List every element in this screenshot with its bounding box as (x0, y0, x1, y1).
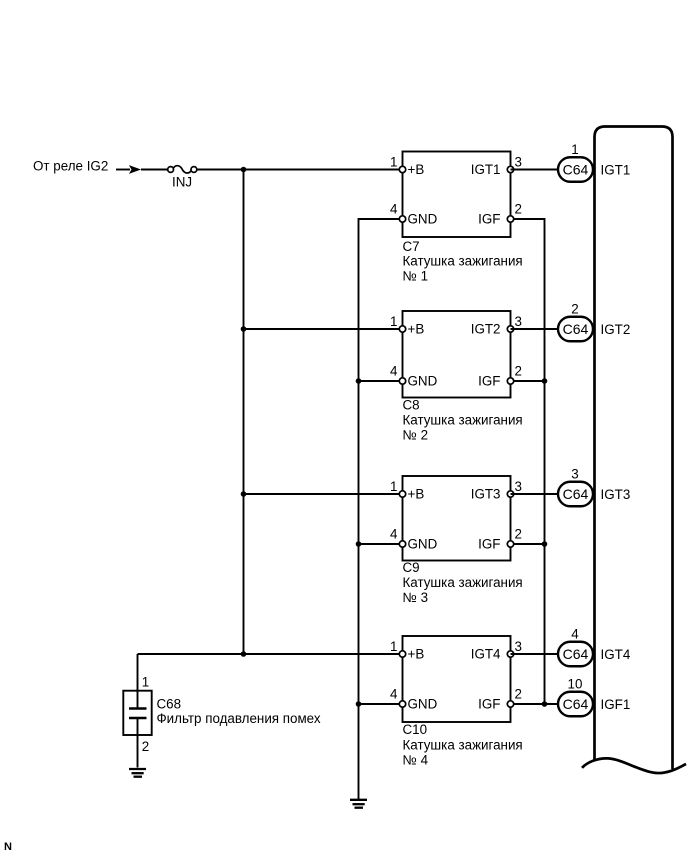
label C68 Фильтр подавления помех (157, 697, 321, 727)
svg-text:C9: C9 (403, 560, 420, 575)
junction +B bus row 2 (241, 326, 247, 332)
svg-text:2: 2 (515, 526, 522, 541)
wire arrow to fuse (141, 169, 168, 171)
svg-text:1: 1 (571, 142, 578, 157)
svg-text:4: 4 (390, 527, 398, 542)
junction IGF bus row 3 (542, 541, 548, 547)
wire C10 IGF to connector (511, 703, 559, 705)
svg-text:IGT1: IGT1 (601, 162, 631, 177)
ignition coil C10 (403, 636, 511, 722)
svg-text:+B: +B (408, 162, 425, 177)
wire +B bus vertical (243, 170, 245, 655)
label C8 Катушка зажигания № 2 (403, 397, 523, 442)
ignition coil C9 (403, 476, 511, 561)
svg-text:+B: +B (408, 321, 425, 336)
wire IGT4 to connector (511, 653, 559, 655)
svg-text:2: 2 (515, 363, 522, 378)
svg-text:2: 2 (515, 686, 522, 701)
pin 3 of C10 (507, 639, 522, 657)
wire IGF stub C8 (511, 380, 545, 382)
junction +B bus row 3 (241, 491, 247, 497)
pin 4 of C7 (390, 202, 406, 223)
wire fuse to coil C7 +B (197, 169, 403, 171)
ECM (engine control module) (582, 127, 686, 774)
svg-text:IGT3: IGT3 (601, 487, 631, 502)
svg-text:C64: C64 (563, 321, 589, 337)
junction +B bus bottom row (241, 651, 247, 657)
svg-text:C7: C7 (403, 239, 420, 254)
junction GND bus row 2 (356, 378, 362, 384)
wire IGF stub C9 (511, 543, 545, 545)
svg-text:GND: GND (408, 373, 438, 388)
svg-text:Катушка зажигания: Катушка зажигания (403, 254, 523, 269)
label C9 Катушка зажигания № 3 (403, 560, 523, 605)
capacitor C68 (noise filter) (123, 691, 151, 735)
svg-text:IGT2: IGT2 (471, 321, 501, 336)
svg-text:GND: GND (408, 536, 438, 551)
connector C64 pin 4 (558, 642, 593, 667)
wire IGT2 to connector (511, 328, 559, 330)
ground (C68 body ground) (129, 769, 146, 777)
wire C7 GND to bus (359, 219, 403, 799)
svg-text:C8: C8 (403, 397, 420, 412)
svg-text:GND: GND (408, 211, 438, 226)
svg-text:IGT3: IGT3 (471, 486, 501, 501)
svg-text:1: 1 (142, 674, 149, 689)
label C7 Катушка зажигания № 1 (403, 239, 523, 284)
svg-text:1: 1 (390, 314, 397, 329)
pin 2 of C8 (507, 363, 522, 384)
svg-text:C64: C64 (563, 646, 589, 662)
svg-text:3: 3 (515, 479, 522, 494)
pin 4 of C8 (390, 364, 406, 384)
ignition coil C8 (403, 311, 511, 398)
wire arrow lead-in (116, 169, 130, 171)
wire IGT3 to connector (511, 493, 559, 495)
svg-text:INJ: INJ (172, 175, 192, 190)
junction IGF bus bottom (542, 701, 548, 707)
fuse INJ circle left (168, 167, 174, 173)
svg-text:IGT1: IGT1 (471, 162, 501, 177)
svg-text:10: 10 (568, 677, 583, 692)
wire C68 to C10 +B (138, 653, 403, 655)
pin 1 of C7 (390, 154, 406, 172)
junction IGF bus row 2 (542, 378, 548, 384)
svg-text:GND: GND (408, 696, 438, 711)
svg-text:1: 1 (390, 639, 397, 654)
svg-text:Катушка зажигания: Катушка зажигания (403, 737, 523, 752)
svg-text:C64: C64 (563, 486, 589, 502)
connector C64 pin 1 (558, 157, 593, 182)
svg-text:1: 1 (390, 479, 397, 494)
svg-text:Катушка зажигания: Катушка зажигания (403, 575, 523, 590)
svg-text:+B: +B (408, 646, 425, 661)
svg-text:IGF: IGF (478, 696, 500, 711)
svg-text:Катушка зажигания: Катушка зажигания (403, 412, 523, 427)
svg-text:От реле IG2: От реле IG2 (33, 158, 108, 173)
svg-text:IGT4: IGT4 (601, 647, 631, 662)
svg-text:3: 3 (515, 639, 522, 654)
pin 2 of C7 (507, 201, 522, 222)
junction GND bus row 3 (356, 541, 362, 547)
pin 4 of C10 (390, 687, 406, 708)
junction GND bus row 4 (356, 701, 362, 707)
wire +B branch to C8 (244, 328, 403, 330)
svg-text:IGF: IGF (478, 211, 500, 226)
wire IGT1 to connector (511, 169, 559, 171)
svg-text:С68: С68 (157, 697, 182, 712)
svg-text:4: 4 (390, 364, 398, 379)
svg-text:1: 1 (390, 154, 397, 169)
label C10 Катушка зажигания № 4 (403, 722, 523, 767)
svg-text:C64: C64 (563, 161, 589, 177)
svg-text:IGF1: IGF1 (601, 697, 631, 712)
svg-text:2: 2 (515, 201, 522, 216)
svg-text:3: 3 (571, 467, 578, 482)
svg-text:IGF: IGF (478, 536, 500, 551)
fuse INJ circle right (191, 167, 197, 173)
svg-text:IGT2: IGT2 (601, 322, 631, 337)
connector C64 pin 10 (558, 692, 593, 717)
svg-text:№ 2: № 2 (403, 428, 429, 443)
pin 3 of C9 (507, 479, 522, 497)
svg-text:3: 3 (515, 314, 522, 329)
wire C68 lead (pin 2) (137, 718, 139, 768)
svg-text:2: 2 (142, 739, 149, 754)
pin 1 of C9 (390, 479, 406, 497)
ground (engine ground, center) (350, 800, 367, 808)
svg-text:+B: +B (408, 486, 425, 501)
pin 2 of C9 (507, 526, 522, 547)
wire GND stub C10 (359, 703, 403, 705)
svg-text:2: 2 (571, 302, 578, 317)
wire GND stub C8 (359, 380, 403, 382)
svg-text:№ 4: № 4 (403, 752, 429, 767)
svg-text:C10: C10 (403, 722, 428, 737)
pin 2 of C10 (507, 686, 522, 707)
fuse INJ element (173, 166, 191, 173)
wire +B branch to C9 (244, 493, 403, 495)
svg-text:№ 1: № 1 (403, 268, 429, 283)
svg-text:4: 4 (571, 627, 579, 642)
svg-text:N: N (4, 841, 12, 853)
wire C7 IGF to bus (511, 219, 545, 704)
junction at +B bus top (241, 167, 247, 173)
svg-text:4: 4 (390, 202, 398, 217)
svg-text:Фильтр подавления помех: Фильтр подавления помех (157, 711, 321, 726)
svg-text:IGF: IGF (478, 373, 500, 388)
svg-text:IGT4: IGT4 (471, 646, 501, 661)
svg-text:№ 3: № 3 (403, 590, 429, 605)
pin 1 of C8 (390, 314, 406, 332)
pin 3 of C8 (507, 314, 522, 332)
svg-text:3: 3 (515, 154, 522, 169)
pin 4 of C9 (390, 527, 406, 548)
arrowhead (129, 165, 141, 174)
wire C68 lead (pin 1) (137, 654, 139, 708)
wire GND stub C9 (359, 543, 403, 545)
svg-text:C64: C64 (563, 696, 589, 712)
connector C64 pin 3 (558, 482, 593, 507)
pin 3 of C7 (507, 154, 522, 172)
pin 1 of C10 (390, 639, 406, 657)
svg-text:4: 4 (390, 687, 398, 702)
connector C64 pin 2 (558, 317, 593, 342)
ignition coil C7 (403, 152, 511, 238)
